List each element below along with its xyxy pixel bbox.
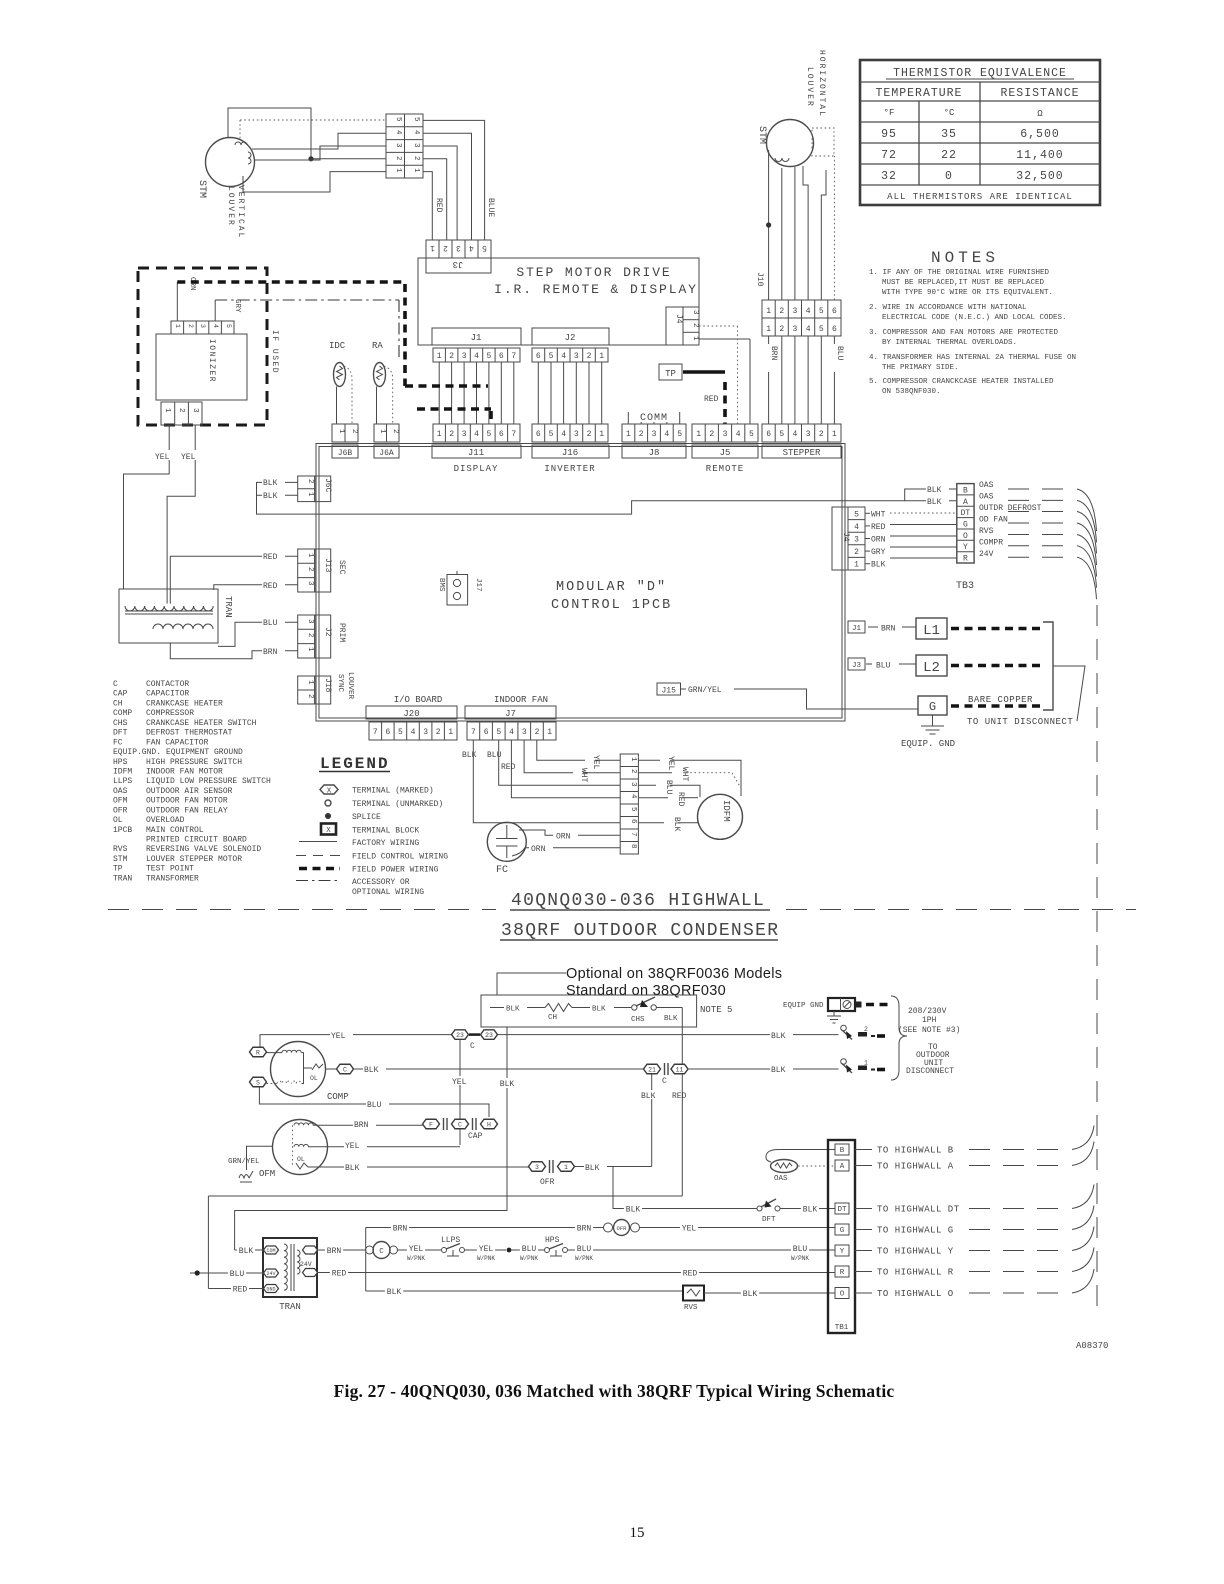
svg-text:1: 1 [564,1164,568,1171]
svg-text:J17: J17 [474,578,482,592]
svg-text:OAS: OAS [113,787,128,796]
svg-text:3: 3 [792,307,797,316]
svg-text:OAS: OAS [979,493,994,502]
TB3 row labels [979,481,1042,559]
svg-text:1PCB: 1PCB [113,826,132,835]
wire J7-7 BLK to strip6 [473,740,620,823]
svg-text:3: 3 [462,352,467,361]
svg-text:LOUVER: LOUVER [226,186,235,227]
svg-text:COMP: COMP [113,709,132,718]
svg-text:1: 1 [864,1060,868,1067]
svg-text:4: 4 [394,130,402,135]
svg-text:5: 5 [779,430,784,439]
terminal S [250,1077,267,1087]
svg-text:BLK: BLK [364,1066,379,1075]
svg-text:W/PNK: W/PNK [575,1255,593,1262]
svg-text:RED: RED [676,792,685,807]
wire BRN to OFR coil [366,1227,604,1229]
TB1 cell B [835,1144,849,1155]
terminal L2 [916,655,947,676]
wire BLK J6C pin2 to TB3 harness [257,482,957,514]
svg-text:GRY: GRY [871,548,886,557]
svg-text:LIQUID LOW PRESSURE SWITCH: LIQUID LOW PRESSURE SWITCH [146,777,271,786]
svg-text:TEST POINT: TEST POINT [146,865,194,874]
svg-text:BLK: BLK [803,1206,818,1215]
svg-text:I/O BOARD: I/O BOARD [394,695,443,705]
svg-text:5: 5 [225,324,232,328]
svg-text:J4: J4 [841,532,850,542]
svg-text:ORN: ORN [556,833,571,842]
svg-text:GRN/YEL: GRN/YEL [228,1158,260,1166]
svg-text:3: 3 [462,430,467,439]
svg-text:OL: OL [297,1156,305,1163]
svg-text:1: 1 [174,324,181,328]
svg-text:BLK: BLK [345,1164,360,1173]
svg-text:EQUIP. GND: EQUIP. GND [901,739,955,749]
svg-text:6: 6 [484,728,489,737]
wires J10 to STEPPER [769,336,835,424]
svg-text:32,500: 32,500 [1016,170,1063,183]
svg-text:DISCONNECT: DISCONNECT [906,1067,954,1076]
legend terminal unmarked symbol [325,800,331,806]
svg-text:5: 5 [819,307,824,316]
connector J8 pins [622,424,686,442]
svg-text:TERMINAL BLOCK: TERMINAL BLOCK [352,827,419,836]
svg-text:4: 4 [469,243,474,252]
terminal L1 [916,618,947,639]
svg-text:YEL: YEL [682,1225,697,1234]
outdoor air sensor OAS [766,1150,835,1163]
svg-text:2: 2 [629,769,637,774]
svg-text:TRAN: TRAN [279,1302,301,1312]
label TO HIGHWALL R [855,1271,872,1273]
svg-text:72: 72 [881,149,897,162]
wire from CHS box down to TRAN BLK [235,1027,507,1250]
svg-text:RA: RA [372,341,383,351]
wire RED J13 pin1 [170,556,297,603]
connector STEPPER pins [762,424,841,442]
svg-text:TO HIGHWALL A: TO HIGHWALL A [877,1162,954,1172]
connector J5 label [692,445,758,458]
svg-text:BLK: BLK [664,1015,678,1023]
fan capacitor FC [487,822,526,861]
svg-text:LOUVER STEPPER MOTOR: LOUVER STEPPER MOTOR [146,855,242,864]
svg-text:6: 6 [629,819,637,824]
svg-text:REMOTE: REMOTE [706,464,744,474]
svg-text:11: 11 [676,1066,684,1073]
wire YEL W/PNK to splice [465,1249,507,1251]
svg-text:3: 3 [423,728,428,737]
svg-text:L1: L1 [923,623,940,639]
wire block to J3 pin2 [423,159,447,240]
svg-text:O: O [840,1291,845,1299]
svg-text:ORN: ORN [871,536,886,545]
svg-text:G: G [963,521,968,530]
svg-text:6,500: 6,500 [1020,128,1060,141]
wire WHT dotted strip2 to IDFM [638,772,672,774]
svg-text:TERMINAL (UNMARKED): TERMINAL (UNMARKED) [352,800,443,809]
svg-text:4: 4 [806,325,811,334]
svg-text:R: R [840,1269,845,1277]
svg-text:IONIZER: IONIZER [207,339,216,383]
svg-text:TEMPERATURE: TEMPERATURE [876,87,963,100]
svg-text:J4: J4 [674,314,683,324]
field wire dashed TB3 row [1008,499,1066,501]
svg-text:NOTES: NOTES [931,249,999,267]
svg-text:Optional on 38QRF0036 Models: Optional on 38QRF0036 Models [566,966,782,982]
svg-text:CAPACITOR: CAPACITOR [146,690,189,699]
svg-text:OFR: OFR [113,806,128,815]
svg-text:2: 2 [394,156,402,161]
svg-text:4: 4 [664,430,669,439]
stepper motor STM horizontal louver [767,120,814,167]
svg-text:WITH TYPE 90°C WIRE OR ITS EQU: WITH TYPE 90°C WIRE OR ITS EQUIVALENT. [882,288,1053,297]
svg-text:CHS: CHS [113,719,128,728]
field wire dashed TB3 row [1008,488,1066,490]
svg-text:5: 5 [749,430,754,439]
thermistor equivalence table [860,60,1100,205]
wire BRN OFM to cap F [313,1124,423,1126]
svg-text:Y: Y [840,1248,845,1256]
svg-text:C: C [470,1042,475,1051]
svg-text:DT: DT [961,509,971,518]
svg-text:6: 6 [385,728,390,737]
svg-text:YEL: YEL [452,1078,467,1087]
svg-text:5: 5 [486,352,491,361]
svg-text:R: R [256,1049,260,1056]
legend terminal marked symbol [320,785,338,794]
svg-text:6: 6 [536,430,541,439]
TB1 cell R [835,1266,849,1277]
svg-text:7: 7 [373,728,378,737]
wire BLK CHS down to contactor [681,1008,683,1070]
relay coil OFR [604,1223,613,1232]
field wire dashed TB3 row [1008,522,1066,524]
svg-text:4: 4 [561,430,566,439]
svg-text:RED: RED [871,523,886,532]
svg-text:6: 6 [499,352,504,361]
svg-text:4: 4 [854,523,859,532]
indoor fan connector strip [620,754,638,854]
svg-text:2: 2 [854,548,859,557]
wire BLU into TRAN with splice [190,1272,264,1274]
svg-text:1: 1 [378,429,386,434]
svg-text:COM: COM [266,1248,275,1254]
svg-text:TRAN: TRAN [113,874,132,883]
svg-text:INDOOR FAN: INDOOR FAN [494,695,548,705]
wire BLK RVS row [366,1290,683,1292]
TB1 cell DT [835,1203,849,1214]
svg-text:OAS: OAS [979,481,994,490]
svg-text:MUST BE REPLACED,IT MUST BE RE: MUST BE REPLACED,IT MUST BE REPLACED [882,279,1045,287]
connector J3 label [426,258,491,273]
svg-text:BARE COPPER: BARE COPPER [968,695,1033,705]
svg-text:DFT: DFT [762,1216,776,1224]
svg-text:STEP MOTOR DRIVE: STEP MOTOR DRIVE [516,265,671,280]
svg-text:4: 4 [736,430,741,439]
wire J7-2 YEL to strip1 [537,740,620,760]
wire BLK into TRAN [235,1249,264,1251]
svg-text:3: 3 [535,1164,539,1171]
relay contact OFR 1 [558,1162,575,1172]
svg-text:YEL: YEL [155,453,170,462]
svg-text:4: 4 [411,728,416,737]
svg-text:2: 2 [709,430,714,439]
svg-text:PRINTED CIRCUIT BOARD: PRINTED CIRCUIT BOARD [146,836,247,845]
connector J15 [657,683,681,695]
label TO HIGHWALL Y [855,1250,872,1252]
wire YEL W/PNK to LLPS [398,1249,442,1251]
svg-text:2: 2 [691,323,699,328]
svg-text:LLPS: LLPS [113,777,132,786]
svg-text:2: 2 [306,479,314,484]
svg-text:B: B [840,1147,845,1155]
svg-text:J15: J15 [661,687,676,696]
svg-text:CH: CH [548,1014,557,1022]
svg-text:BLK: BLK [387,1288,402,1297]
svg-text:HIGH PRESSURE SWITCH: HIGH PRESSURE SWITCH [146,758,242,767]
connector J3 pins [426,240,491,258]
svg-text:BRN: BRN [327,1247,342,1256]
svg-text:1: 1 [691,336,699,341]
wire YEL down to cap [459,1040,461,1146]
svg-text:HPS: HPS [113,758,128,767]
svg-text:BLU: BLU [230,1270,245,1279]
svg-text:IDFM: IDFM [113,768,132,777]
svg-text:3: 3 [652,430,657,439]
label TO HIGHWALL DT [855,1208,872,1210]
svg-text:FC: FC [496,865,508,876]
svg-text:LOUVER: LOUVER [805,67,814,108]
svg-text:J5: J5 [720,448,731,458]
svg-text:3: 3 [412,143,420,148]
terminal block TB3 [957,484,974,563]
wire YEL OFR to TB1 G [640,1227,836,1229]
svg-text:1: 1 [448,728,453,737]
svg-text:FACTORY WIRING: FACTORY WIRING [352,839,419,848]
svg-text:BLK: BLK [771,1066,786,1075]
svg-text:BLU: BLU [487,751,502,760]
svg-text:BLK: BLK [927,498,942,507]
svg-text:MODULAR ″D″: MODULAR ″D″ [556,580,667,595]
svg-text:A: A [840,1163,845,1171]
svg-text:CONTROL 1PCB: CONTROL 1PCB [551,598,672,613]
svg-text:3: 3 [456,243,461,252]
wires COMM stubs [628,412,679,424]
svg-text:2: 2 [306,567,314,572]
field power bold dashed wires at J1 [405,384,488,388]
svg-text:TO UNIT DISCONNECT: TO UNIT DISCONNECT [967,717,1073,727]
svg-text:OD FAN: OD FAN [979,516,1008,525]
svg-text:BMS: BMS [437,578,445,592]
connector J16 label [532,445,609,458]
svg-text:BLK: BLK [239,1247,254,1256]
label BLU [829,344,840,372]
transformer TRAN [119,589,218,643]
svg-text:OPTIONAL WIRING: OPTIONAL WIRING [352,888,424,897]
svg-text:1: 1 [854,561,859,570]
svg-text:ELECTRICAL CODE (N.E.C.) AND L: ELECTRICAL CODE (N.E.C.) AND LOCAL CODES… [882,314,1067,322]
svg-text:J1: J1 [471,333,482,343]
wire BLK to CH [490,1007,504,1009]
svg-text:BLU: BLU [876,662,891,671]
svg-text:Standard on 38QRF030: Standard on 38QRF030 [566,983,726,999]
svg-text:2: 2 [779,307,784,316]
svg-text:COMP: COMP [327,1092,349,1102]
svg-text:X: X [327,788,332,796]
svg-text:TERMINAL (MARKED): TERMINAL (MARKED) [352,787,434,796]
svg-text:Y: Y [963,543,968,552]
wire BLU W/PNK to TB1 Y [568,1249,836,1251]
svg-text:W/PNK: W/PNK [477,1255,495,1262]
svg-text:3: 3 [691,310,699,315]
label YEL YEL [124,425,170,589]
vertical bus G-O rows [365,1228,367,1292]
wire BRN J2 pin1 [170,643,297,659]
wire RED 11 down [681,1074,683,1196]
svg-text:2: 2 [436,728,441,737]
svg-text:OFR: OFR [617,1225,628,1232]
svg-text:23: 23 [456,1032,464,1039]
svg-text:F: F [429,1121,433,1128]
svg-text:OVERLOAD: OVERLOAD [146,816,185,825]
connector J6C [298,476,315,502]
svg-text:6: 6 [832,307,837,316]
svg-text:ORN: ORN [531,845,546,854]
svg-text:32: 32 [881,170,897,183]
svg-text:BLK: BLK [500,1080,515,1089]
svg-text:1: 1 [629,757,637,762]
wire J4 pin2 dotted to J5 [699,326,738,424]
svg-text:24V: 24V [266,1271,275,1277]
svg-text:2: 2 [443,243,448,252]
svg-text:BLK: BLK [585,1164,600,1173]
svg-text:J3: J3 [453,259,464,269]
defrost thermostat DFT [757,1206,762,1211]
TB1 cell O [835,1288,849,1299]
wire STM to block row1 [243,172,386,192]
svg-text:G: G [929,700,936,714]
wire block to J3 pin3 [423,146,457,240]
svg-text:C: C [458,1121,462,1128]
svg-text:W/PNK: W/PNK [520,1255,538,1262]
wire BLK J4-1 to TB3 R [865,563,870,565]
label TO HIGHWALL A [855,1165,872,1167]
svg-text:5: 5 [398,728,403,737]
svg-text:C: C [379,1248,384,1256]
wire RED strip4 to IDFM [638,797,668,799]
svg-text:2: 2 [177,408,185,413]
svg-text:5: 5 [677,430,682,439]
svg-text:H: H [487,1121,491,1128]
svg-text:LLPS: LLPS [441,1236,460,1245]
svg-text:22: 22 [941,149,957,162]
svg-text:1: 1 [412,168,420,173]
svg-text:3: 3 [629,782,637,787]
svg-text:C: C [662,1077,667,1086]
svg-text:RED: RED [233,1286,248,1295]
svg-text:8: 8 [629,844,637,849]
svg-text:2: 2 [350,429,358,434]
svg-text:LOUVER: LOUVER [346,672,354,700]
svg-text:1: 1 [547,728,552,737]
wire ORN field power bold dashed [177,280,405,284]
svg-text:21: 21 [648,1066,656,1073]
legend field control symbol [296,855,340,857]
svg-text:3: 3 [806,430,811,439]
svg-text:1: 1 [599,352,604,361]
svg-text:YEL: YEL [345,1142,360,1151]
wire J7-5 BLU to strip3 [499,740,621,785]
svg-text:4: 4 [792,430,797,439]
wire J7-3 WHT to strip2 [524,740,620,773]
label TO HIGHWALL G [855,1229,872,1231]
svg-text:YEL: YEL [331,1032,346,1041]
svg-text:6: 6 [766,430,771,439]
svg-text:TRAN: TRAN [223,596,233,618]
svg-text:FC: FC [113,738,123,747]
svg-text:OL: OL [113,816,123,825]
svg-text:CONTACTOR: CONTACTOR [146,680,189,689]
wire GRY ionizer accessory dash-dot [214,300,216,321]
svg-text:2: 2 [391,429,399,434]
svg-text:BY INTERNAL THERMAL OVERLOADS.: BY INTERNAL THERMAL OVERLOADS. [882,339,1017,347]
svg-text:CAP: CAP [468,1132,483,1141]
svg-text:DT: DT [837,1206,847,1214]
svg-text:24V: 24V [300,1261,312,1268]
wire ORN J4-3 to TB3 O [865,538,870,540]
svg-text:TO HIGHWALL O: TO HIGHWALL O [877,1289,954,1299]
svg-text:A: A [963,498,968,507]
svg-text:STM: STM [756,126,767,144]
svg-text:LEGEND: LEGEND [320,755,390,773]
wires J2 to J16 [538,362,601,424]
legend splice symbol [325,813,331,819]
svg-text:1: 1 [306,647,314,652]
connector J1 line power [848,621,865,633]
svg-text:5: 5 [486,430,491,439]
wire ORN FC to strip7 [519,830,553,835]
svg-text:OUTDOOR FAN RELAY: OUTDOOR FAN RELAY [146,806,228,815]
svg-text:2: 2 [306,633,314,638]
wire YEL compressor run to L2 [260,1035,839,1047]
svg-text:NOTE 5: NOTE 5 [700,1005,732,1015]
wires J1 to J11 [439,362,514,424]
svg-text:BLK: BLK [743,1290,758,1299]
connector J6A [374,424,399,442]
wire BRN TRAN secondary [317,1249,366,1251]
svg-text:VERTICAL: VERTICAL [236,185,245,239]
svg-text:2: 2 [779,325,784,334]
wire BLK compressor common row [354,1068,644,1070]
svg-text:1: 1 [437,352,442,361]
terminal 23 b [481,1030,498,1040]
TB1 cell Y [835,1245,849,1256]
long vertical field dashed wire [1096,605,1098,1312]
svg-text:J18: J18 [323,678,332,693]
svg-text:THERMISTOR EQUIVALENCE: THERMISTOR EQUIVALENCE [893,67,1067,80]
jumper J17 BMS [447,575,468,606]
svg-text:5: 5 [482,243,487,252]
svg-text:RVS: RVS [113,845,128,854]
stepper motor STM vertical louver [206,138,255,187]
svg-text:R: R [963,555,968,564]
svg-text:BLU: BLU [664,780,673,795]
svg-text:3: 3 [306,619,314,624]
svg-text:S: S [256,1079,260,1086]
svg-text:BLK: BLK [592,1006,606,1014]
svg-text:BLK: BLK [641,1092,656,1101]
